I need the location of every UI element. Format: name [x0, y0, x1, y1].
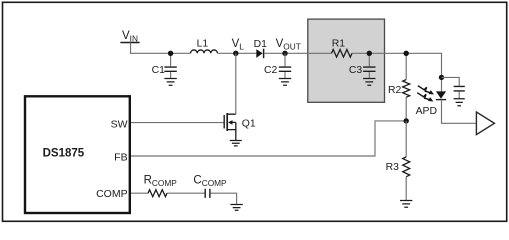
- svg-text:L1: L1: [197, 38, 209, 49]
- svg-text:R3: R3: [386, 162, 400, 173]
- ground (bypass cap): [454, 99, 465, 106]
- svg-text:C2: C2: [264, 65, 278, 76]
- transistor Q1 (NMOS): [224, 113, 256, 140]
- svg-text:COMP: COMP: [96, 188, 128, 200]
- resistor R1: [332, 39, 353, 58]
- node VOUT: [276, 38, 301, 56]
- svg-text:D1: D1: [254, 39, 268, 50]
- ground (Q1 source): [230, 141, 242, 146]
- node APD bias junction: [439, 75, 444, 80]
- wire RCOMP to CCOMP: [167, 192, 205, 194]
- wire L1 to D1 (node VL): [218, 52, 257, 54]
- resistor R2: [388, 51, 410, 121]
- wire COMP to RCOMP: [131, 192, 148, 194]
- capacitor CCOMP: [193, 175, 227, 198]
- ground (C3): [363, 79, 375, 86]
- ground (C1): [164, 79, 176, 86]
- wire VIN to L1: [131, 43, 191, 54]
- capacitor C3: [349, 51, 376, 79]
- wire CCOMP to ground: [210, 193, 236, 204]
- photodiode APD: [416, 86, 447, 117]
- capacitor (APD bypass): [454, 86, 465, 98]
- capacitor C1: [152, 51, 177, 79]
- diode D1: [254, 39, 268, 58]
- wire D1 to R1 (node VOUT): [264, 52, 332, 54]
- wire R1 to right corner: [352, 53, 442, 91]
- inductor L1: [191, 38, 218, 53]
- svg-text:DS1875: DS1875: [43, 147, 85, 159]
- svg-text:APD: APD: [416, 106, 437, 117]
- svg-text:Q1: Q1: [242, 118, 256, 129]
- resistor RCOMP: [144, 175, 178, 197]
- capacitor C2: [264, 53, 291, 78]
- wire SW to Q1 gate: [131, 122, 224, 124]
- node VL: [232, 38, 245, 56]
- wire junction to bypass cap: [442, 77, 460, 85]
- ground (CCOMP): [230, 205, 242, 211]
- wire Q1 drain to VL: [235, 53, 237, 114]
- svg-text:SW: SW: [111, 118, 128, 130]
- svg-text:FB: FB: [114, 152, 127, 164]
- svg-text:C1: C1: [152, 65, 166, 76]
- ground (R3): [400, 201, 412, 208]
- ground (C2): [279, 79, 291, 86]
- IC U1 DS1875: [25, 96, 130, 213]
- shaded block (R1/C3 output filter): [308, 19, 385, 102]
- svg-text:R1: R1: [332, 39, 346, 50]
- wire APD to amplifier: [442, 100, 477, 124]
- op-amp (TIA buffer): [476, 112, 494, 135]
- svg-text:C3: C3: [349, 65, 363, 76]
- node VIN: [120, 30, 139, 43]
- node FB junction: [404, 118, 409, 123]
- svg-text:R2: R2: [388, 85, 402, 96]
- wire FB to feedback node: [131, 121, 406, 156]
- resistor R3: [386, 121, 410, 200]
